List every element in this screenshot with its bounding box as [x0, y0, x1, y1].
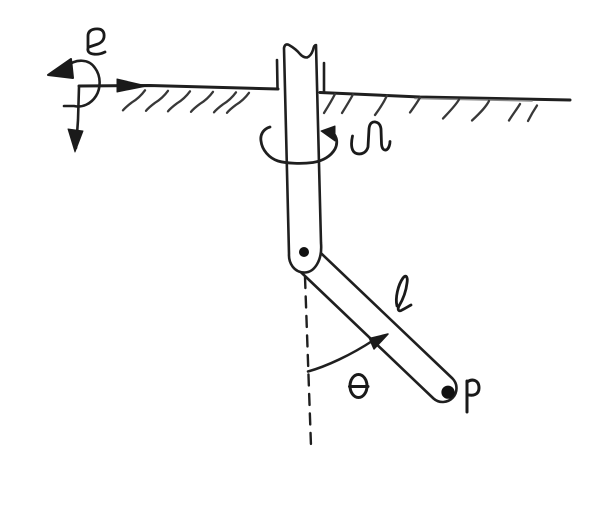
rotation ellipse arc around shaft (Omega) [261, 127, 337, 163]
label theta [350, 375, 369, 398]
frame e: horizontal axis arrowhead [117, 79, 147, 92]
point P dot at rod end [441, 386, 454, 399]
hatching left of shaft [123, 90, 249, 113]
pivot dot [299, 247, 309, 257]
wire ceiling line right segment [320, 93, 570, 101]
label e [88, 29, 105, 54]
rotation ellipse arrowhead [321, 126, 335, 141]
frame e: vertical axis arrowhead [68, 129, 83, 152]
hatching right of shaft [324, 94, 537, 121]
wire ceiling line left segment [79, 86, 278, 90]
shaft (vertical rod through ceiling) [284, 44, 321, 272]
theta arc arrowhead [370, 334, 389, 349]
pendulum rod (capsule) [292, 244, 457, 402]
label Omega [352, 122, 390, 154]
label P [467, 380, 479, 412]
label l (script ell) [396, 276, 411, 311]
frame e: rotation arc [64, 61, 100, 107]
collar tick left of shaft [276, 60, 279, 88]
frame e: rotation arc arrowhead [48, 59, 73, 78]
wire ceiling right segment overdraw (scan doubling) [415, 99, 532, 102]
frame e: vertical axis [76, 87, 79, 148]
collar tick right of shaft [323, 63, 326, 92]
theta angle arc [308, 341, 373, 372]
dashed vertical reference line [305, 277, 311, 446]
